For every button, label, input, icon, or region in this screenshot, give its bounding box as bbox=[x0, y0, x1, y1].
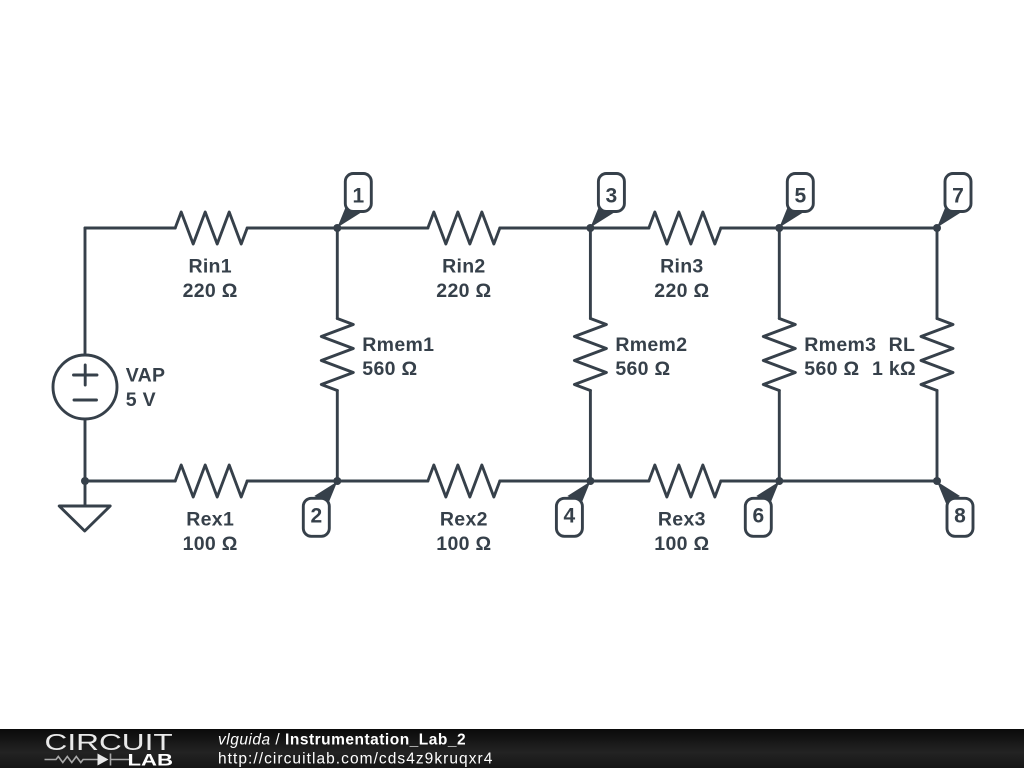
resistor Rex3 bbox=[649, 465, 721, 497]
junction node 7 bbox=[933, 224, 941, 232]
wire column node 8 lower bbox=[936, 391, 939, 482]
resistor Rmem2 bbox=[574, 319, 606, 391]
junction node 1 bbox=[333, 224, 341, 232]
Rmem3 label bbox=[804, 334, 876, 380]
wire node 5 to node 7 bbox=[721, 227, 937, 230]
resistor Rmem3 bbox=[763, 319, 795, 391]
wire node 3 segment (Rin2 to Rin3) bbox=[500, 227, 649, 230]
svg-text:1: 1 bbox=[352, 185, 364, 208]
svg-text:6: 6 bbox=[752, 504, 764, 527]
svg-text:Rin2: Rin2 bbox=[442, 256, 485, 278]
node 4 bbox=[556, 482, 590, 537]
svg-text:Rin1: Rin1 bbox=[188, 256, 231, 278]
Rmem1 label bbox=[362, 334, 434, 380]
junction node 8 bbox=[933, 477, 941, 485]
junction node 5 bbox=[775, 224, 783, 232]
svg-text:3: 3 bbox=[606, 185, 618, 208]
wire ground to Rex1 bbox=[85, 480, 175, 483]
wire column node 1 upper bbox=[336, 228, 339, 319]
svg-text:220 Ω: 220 Ω bbox=[436, 280, 491, 302]
svg-text:LAB: LAB bbox=[128, 751, 174, 768]
wire node 4 segment (Rex2 to Rex3) bbox=[500, 480, 649, 483]
resistor Rex2 bbox=[428, 465, 500, 497]
svg-text:Rin3: Rin3 bbox=[660, 256, 703, 278]
resistor Rmem1 bbox=[321, 319, 353, 391]
wire source top lead bbox=[84, 228, 87, 355]
wire column node 4 lower bbox=[589, 391, 592, 482]
Rex1 label bbox=[183, 509, 238, 556]
junction node 3 bbox=[586, 224, 594, 232]
node 6 bbox=[745, 482, 779, 537]
svg-text:560 Ω: 560 Ω bbox=[362, 358, 417, 380]
svg-text:560 Ω: 560 Ω bbox=[615, 358, 670, 380]
CircuitLab logo squiggle (resistor + diode) bbox=[45, 754, 130, 766]
node 3 bbox=[590, 174, 624, 228]
svg-text:http://circuitlab.com/cds4z9kr: http://circuitlab.com/cds4z9kruqxr4 bbox=[218, 751, 493, 768]
svg-text:100 Ω: 100 Ω bbox=[654, 533, 709, 555]
svg-text:2: 2 bbox=[310, 504, 322, 527]
node 8 bbox=[937, 482, 973, 537]
node 2 bbox=[303, 482, 337, 537]
Rmem2 label bbox=[615, 334, 687, 380]
Rin1 label bbox=[183, 256, 238, 303]
svg-text:5: 5 bbox=[794, 185, 806, 208]
svg-text:VAP: VAP bbox=[126, 365, 166, 387]
Rin3 label bbox=[654, 256, 709, 303]
wire column node 3 upper bbox=[589, 228, 592, 319]
junction node 2 bbox=[333, 477, 341, 485]
svg-text:560 Ω: 560 Ω bbox=[804, 358, 859, 380]
Rin2 label bbox=[436, 256, 491, 303]
resistor Rin2 bbox=[428, 212, 500, 244]
wire ground stem bbox=[84, 481, 87, 506]
svg-text:5 V: 5 V bbox=[126, 389, 156, 411]
wire column node 5 upper bbox=[778, 228, 781, 319]
wire source bottom lead bbox=[84, 419, 87, 481]
svg-text:Rmem2: Rmem2 bbox=[615, 334, 687, 356]
resistor RL bbox=[921, 319, 953, 391]
ground junction bbox=[81, 477, 89, 485]
wire column node 2 lower bbox=[336, 391, 339, 482]
junction node 4 bbox=[586, 477, 594, 485]
resistor Rex1 bbox=[175, 465, 247, 497]
resistor Rin3 bbox=[649, 212, 721, 244]
wire column node 6 lower bbox=[778, 391, 781, 482]
VAP label bbox=[126, 365, 166, 412]
svg-text:vlguida / Instrumentation_Lab_: vlguida / Instrumentation_Lab_2 bbox=[218, 732, 466, 749]
svg-text:100 Ω: 100 Ω bbox=[436, 533, 491, 555]
Rex2 label bbox=[436, 509, 491, 556]
junction node 6 bbox=[775, 477, 783, 485]
node 1 bbox=[337, 174, 371, 228]
svg-text:220 Ω: 220 Ω bbox=[183, 280, 238, 302]
svg-text:8: 8 bbox=[954, 504, 966, 527]
wire column node 7 upper bbox=[936, 228, 939, 319]
svg-text:220 Ω: 220 Ω bbox=[654, 280, 709, 302]
wire node 6 to node 8 bbox=[721, 480, 937, 483]
svg-text:Rex2: Rex2 bbox=[440, 509, 488, 531]
node 5 bbox=[779, 174, 813, 228]
resistor Rin1 bbox=[175, 212, 247, 244]
wire node 1 segment (Rin1 to Rin2) bbox=[247, 227, 428, 230]
wire top-left from source to Rin1 bbox=[85, 227, 175, 230]
ground bbox=[59, 506, 110, 531]
footer bar bbox=[0, 729, 1024, 768]
svg-text:Rmem1: Rmem1 bbox=[362, 334, 434, 356]
svg-text:Rmem3: Rmem3 bbox=[804, 334, 876, 356]
svg-text:7: 7 bbox=[952, 185, 964, 208]
svg-text:4: 4 bbox=[564, 504, 576, 527]
svg-text:RL: RL bbox=[889, 334, 916, 356]
svg-text:100 Ω: 100 Ω bbox=[183, 533, 238, 555]
svg-text:Rex3: Rex3 bbox=[658, 509, 706, 531]
Rex3 label bbox=[654, 509, 709, 556]
node 7 bbox=[937, 174, 971, 228]
wire node 2 segment (Rex1 to Rex2) bbox=[247, 480, 428, 483]
svg-text:Rex1: Rex1 bbox=[186, 509, 234, 531]
svg-text:1 kΩ: 1 kΩ bbox=[872, 358, 916, 380]
voltage source VAP bbox=[53, 355, 117, 419]
